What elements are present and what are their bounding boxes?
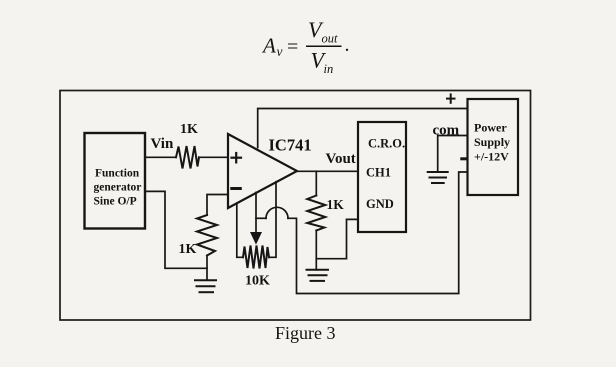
label - negative terminal (462, 157, 467, 160)
op-amp U1 IC741 (228, 134, 312, 208)
svg-text:out: out (322, 32, 339, 46)
svg-text:Supply: Supply (474, 135, 510, 149)
ground at R2 (195, 280, 216, 292)
wire R1 to op-amp noninverting input (199, 156, 228, 158)
resistor R1 1K series input (176, 122, 199, 169)
wire negative supply rail to pot wiper (288, 172, 468, 294)
svg-text:GND: GND (366, 197, 394, 211)
svg-text:+/-12V: +/-12V (474, 150, 509, 164)
svg-text:1K: 1K (327, 197, 345, 212)
svg-text:IC741: IC741 (269, 136, 312, 155)
ground at com (428, 172, 448, 183)
svg-text:Function: Function (95, 168, 140, 180)
svg-text:Vin: Vin (151, 136, 174, 152)
wire offset null pin1 to pot left end (237, 204, 243, 258)
crossover hop over pin5 wire (266, 207, 288, 218)
wire inverting input to R2 (207, 195, 228, 216)
svg-text:1K: 1K (179, 242, 197, 257)
svg-text:Sine O/P: Sine O/P (94, 196, 137, 208)
svg-text:.: . (345, 34, 350, 56)
wire hop to wiper (256, 217, 266, 219)
svg-text:generator: generator (94, 182, 142, 194)
svg-text:in: in (324, 62, 334, 76)
resistor R3 1K load (307, 171, 344, 269)
wire FG upper output to R1 (145, 156, 176, 158)
svg-text:Vout: Vout (326, 151, 356, 167)
svg-text:1K: 1K (180, 122, 198, 137)
svg-text:v: v (277, 44, 283, 59)
svg-text:10K: 10K (245, 274, 270, 289)
ground at load resistor (307, 270, 329, 281)
wire offset null pin5 to pot right end (269, 182, 276, 258)
function generator FG (85, 133, 146, 229)
potentiometer R4 10K (243, 246, 270, 289)
wire wiper arrow from op-amp V- pin (251, 193, 261, 244)
svg-text:Figure 3: Figure 3 (275, 323, 336, 343)
power supply PS +/-12V (468, 99, 519, 195)
wire FG lower terminal to ground bus (145, 191, 207, 268)
wire com terminal to ground (438, 136, 468, 172)
svg-text:C.R.O.: C.R.O. (368, 137, 405, 151)
svg-text:=: = (287, 36, 298, 58)
resistor R2 1K inverting input to ground (179, 215, 218, 280)
wire op-amp output to CRO CH1 (297, 170, 358, 172)
wire positive supply rail from op-amp V+ to power supply (258, 109, 468, 148)
wire CRO GND pin to ground node (316, 219, 358, 258)
label + positive terminal (447, 94, 455, 102)
svg-text:Power: Power (474, 121, 507, 135)
svg-text:A: A (261, 34, 276, 58)
oscilloscope CRO (358, 122, 406, 232)
svg-text:CH1: CH1 (366, 166, 391, 180)
formula Av = Vout/Vin (261, 17, 350, 76)
